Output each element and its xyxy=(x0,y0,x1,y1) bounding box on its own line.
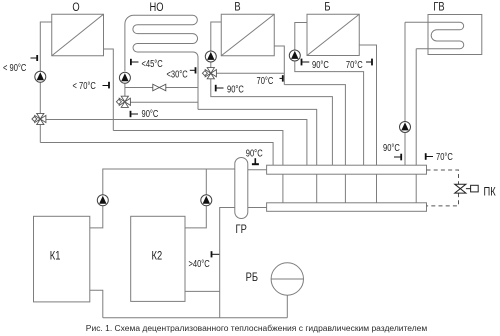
wire GV supply riser lower xyxy=(404,132,406,165)
wire L1 NO line valve-to-jog xyxy=(130,101,198,103)
wire V pump-to-valve xyxy=(210,62,212,68)
svg-text:< 70°С: < 70°С xyxy=(73,80,97,91)
wire GV return riser xyxy=(415,49,417,166)
svg-text:ПК: ПК xyxy=(484,185,497,198)
wire L4 O-supply line to manifold xyxy=(40,143,273,166)
svg-text:О: О xyxy=(72,1,79,14)
wire O riser pump-to-valve xyxy=(39,82,41,113)
svg-text:90°С: 90°С xyxy=(383,142,400,153)
wire GV supply riser upper xyxy=(404,22,406,121)
wire V return to manifold xyxy=(284,85,345,166)
sensor V return xyxy=(280,75,283,81)
wire K1 supply connect xyxy=(90,206,103,228)
wire L1 gap segment xyxy=(316,174,318,203)
wire K2 supply riser xyxy=(205,169,207,200)
svg-text:ГР: ГР xyxy=(236,223,247,236)
4-way valve NO xyxy=(116,96,130,107)
sensor NO supply xyxy=(131,59,139,65)
PK actuator square xyxy=(471,185,479,192)
sensor NO mix xyxy=(190,67,196,73)
svg-text:90°С: 90°С xyxy=(142,108,159,119)
svg-text:< 90°С: < 90°С xyxy=(3,62,27,73)
ventilation heater V box xyxy=(221,14,274,56)
boiler-loop B box xyxy=(307,14,359,55)
svg-text:Рис. 1. Схема децентрализованн: Рис. 1. Схема децентрализованного теплос… xyxy=(86,323,427,333)
boiler K1 box xyxy=(34,216,90,302)
svg-text:К2: К2 xyxy=(152,249,163,262)
svg-text:70°С: 70°С xyxy=(257,75,274,86)
wire O supply riser upper xyxy=(40,22,51,71)
svg-text:90°С: 90°С xyxy=(246,147,263,158)
svg-text:Б: Б xyxy=(324,0,330,13)
svg-text:90°С: 90°С xyxy=(227,83,244,94)
pump V xyxy=(205,51,216,62)
wire L3 gap segment to lower manifold xyxy=(282,174,284,203)
dashed wire upper manifold to PK xyxy=(427,170,459,184)
svg-text:В: В xyxy=(234,0,240,13)
wire K2 supply connect xyxy=(185,206,206,228)
pump K1 xyxy=(97,195,108,206)
heat exchanger O box xyxy=(52,14,104,56)
NO floor-heating coil xyxy=(125,15,198,109)
sensor V hot xyxy=(216,85,224,92)
svg-text:70°С: 70°С xyxy=(346,59,363,70)
wire V valve down and line to manifold xyxy=(211,79,333,165)
pump GV xyxy=(400,122,411,133)
4-way valve O xyxy=(32,113,46,124)
wire L2 O-mix line xyxy=(46,120,307,166)
svg-text:НО: НО xyxy=(149,1,163,14)
dashed wire PK to lower manifold xyxy=(427,193,459,206)
wire V supply from box xyxy=(211,22,221,51)
pump K2 xyxy=(201,195,212,206)
sensor GR 90C xyxy=(252,158,259,164)
wire L1 jog vertical xyxy=(197,102,199,109)
wire GR to upper manifold xyxy=(248,169,267,171)
sensor B hot xyxy=(302,59,310,66)
sensor GV hot xyxy=(394,154,401,161)
sensor O return xyxy=(103,82,110,89)
sensor O supply xyxy=(31,55,38,61)
wire O valve down to L4 xyxy=(39,125,41,143)
wire K1 return xyxy=(90,290,103,318)
pump NO xyxy=(119,72,130,83)
2-way valve NO bowtie xyxy=(153,84,166,91)
wire V return from box xyxy=(274,46,284,85)
sensor boiler return 40C xyxy=(212,251,220,257)
wire NO mixing line with bowtie xyxy=(125,87,198,89)
svg-text:70°С: 70°С xyxy=(436,151,453,162)
DHW tank GV box xyxy=(428,15,482,55)
wire V valve right port to return riser xyxy=(216,72,284,74)
pump O xyxy=(35,71,46,82)
4-way valve V xyxy=(202,68,216,79)
wire NO pump-to-valve riser xyxy=(124,83,126,96)
wire L3 O-return line to manifold xyxy=(113,131,283,166)
wire B return gap segment xyxy=(376,174,378,203)
wire RB expansion-tank riser xyxy=(286,295,288,317)
wire boiler supply header xyxy=(103,169,235,200)
wire GV return gap segment xyxy=(415,174,417,203)
svg-text:К1: К1 xyxy=(50,249,61,262)
svg-text:ГВ: ГВ xyxy=(433,0,444,13)
wire V return gap segment xyxy=(344,174,346,203)
PK actuator stub xyxy=(466,188,471,190)
svg-text:РБ: РБ xyxy=(246,271,258,284)
wire K2 return xyxy=(185,290,220,292)
wire GR return to boilers xyxy=(220,208,235,318)
expansion tank RB circle xyxy=(271,263,303,295)
boiler K2 box xyxy=(131,216,185,301)
wire B supply from box xyxy=(295,23,307,51)
svg-text:>40°С: >40°С xyxy=(189,258,211,269)
wire B supply below pump to manifold xyxy=(295,61,364,165)
svg-text:<45°С: <45°С xyxy=(142,58,164,69)
lower return manifold xyxy=(267,203,427,212)
sensor NO hot xyxy=(131,111,139,117)
svg-text:<30°С: <30°С xyxy=(167,68,189,79)
hydraulic separator GR capsule xyxy=(235,158,248,219)
wire GR to lower manifold xyxy=(248,207,267,209)
sensor manifold 70C xyxy=(426,153,433,160)
wire B return from box to manifold xyxy=(359,45,376,165)
wire L1 NO line to manifold xyxy=(198,109,317,165)
sensor B return xyxy=(366,59,372,66)
GV internal coil xyxy=(405,22,464,48)
upper supply manifold xyxy=(267,165,427,174)
svg-text:90°С: 90°С xyxy=(312,59,329,70)
wire O return from box xyxy=(104,49,114,131)
wire common bottom return xyxy=(103,317,287,319)
pump B xyxy=(289,50,300,61)
safety valve PK hourglass xyxy=(455,184,479,193)
